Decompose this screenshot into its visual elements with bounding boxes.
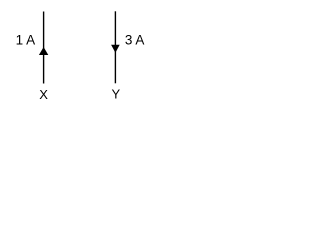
svg-text:3 A: 3 A: [125, 33, 145, 48]
svg-text:Y: Y: [111, 87, 120, 102]
wire X (left vertical conductor): [43, 12, 45, 84]
svg-text:X: X: [39, 87, 48, 102]
current arrow on wire X (1 A upward): [39, 47, 48, 55]
svg-text:1 A: 1 A: [16, 32, 36, 47]
current arrow on wire Y (3 A downward): [111, 45, 120, 53]
wire Y (right vertical conductor): [114, 11, 116, 83]
